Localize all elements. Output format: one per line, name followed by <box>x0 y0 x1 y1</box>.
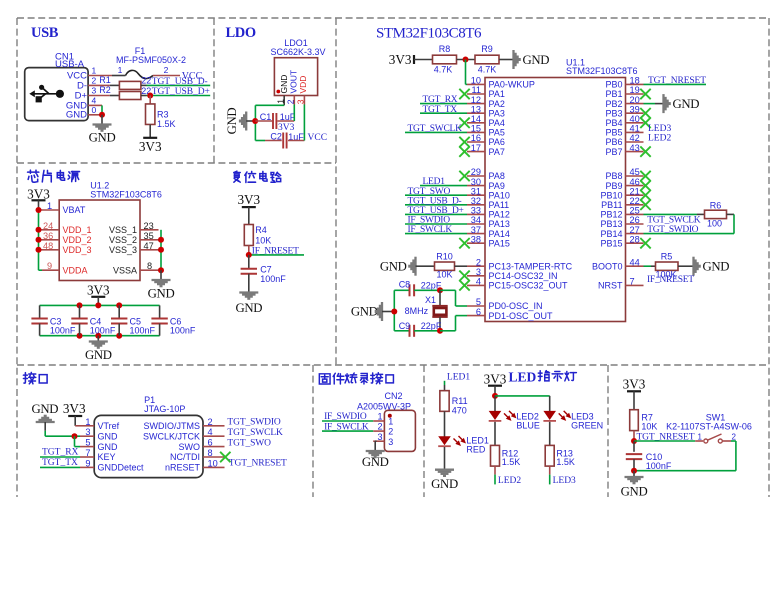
svg-text:PB7: PB7 <box>605 147 622 157</box>
svg-text:LED: LED <box>509 369 537 384</box>
svg-text:PA11: PA11 <box>489 200 510 210</box>
junction crystal gnd <box>391 309 397 315</box>
pin 45 PB8 <box>605 167 643 181</box>
wire R7 to TGT_NRESET node <box>633 431 635 441</box>
svg-text:22: 22 <box>141 76 151 86</box>
resistor R5 100K <box>655 251 678 279</box>
svg-text:PA12: PA12 <box>489 210 510 220</box>
no-connect pin 21 <box>640 190 650 200</box>
connector CN1 USB-A <box>25 52 97 121</box>
svg-text:TGT_SWDIO: TGT_SWDIO <box>647 225 698 235</box>
resistor R12 1.5K <box>491 445 521 467</box>
svg-text:R1: R1 <box>99 75 111 85</box>
svg-text:IF_NRESET: IF_NRESET <box>647 275 694 285</box>
svg-text:1.5K: 1.5K <box>556 457 575 467</box>
connector P1 JTAG-10P <box>94 395 203 478</box>
svg-text:100: 100 <box>707 219 722 229</box>
capacitor C7 100nF <box>241 265 287 284</box>
svg-text:NRST: NRST <box>598 281 623 291</box>
svg-text:16: 16 <box>471 133 481 143</box>
svg-text:PA0-WKUP: PA0-WKUP <box>489 80 535 90</box>
svg-text:36: 36 <box>43 231 53 241</box>
pin 8 VSSA stub <box>140 269 159 271</box>
svg-text:TGT_USB_D+: TGT_USB_D+ <box>408 206 464 216</box>
svg-text:10: 10 <box>208 458 218 468</box>
svg-text:PA8: PA8 <box>489 171 505 181</box>
svg-text:C9: C9 <box>399 321 411 331</box>
wire gnd to pin5 <box>74 436 76 446</box>
svg-text:1: 1 <box>118 65 123 75</box>
svg-text:5: 5 <box>85 438 90 448</box>
svg-text:C8: C8 <box>399 280 411 290</box>
svg-text:VCC: VCC <box>308 133 328 143</box>
pin 2 PC13-TAMPER-RTC <box>467 257 573 271</box>
pin 29 PA8 <box>467 167 505 181</box>
svg-text:3: 3 <box>476 267 481 277</box>
svg-text:PA10: PA10 <box>489 190 510 200</box>
wire net TGT_NRESET to switch <box>634 440 695 442</box>
pin 10 PA0-WKUP <box>467 76 535 90</box>
svg-text:nRESET: nRESET <box>165 463 201 473</box>
svg-text:R10: R10 <box>436 251 453 261</box>
resistor R4 10K <box>244 225 271 246</box>
pin 3 (P1 left) <box>80 427 94 437</box>
pin 3 PC14-OSC32_IN <box>467 267 558 281</box>
svg-text:X1: X1 <box>425 295 436 305</box>
power 3V3 (P1) <box>63 401 86 416</box>
ground (CN2) <box>362 451 389 469</box>
pin 19 PB1 <box>605 85 643 99</box>
svg-text:GND: GND <box>85 348 112 362</box>
junction VSSA <box>158 267 164 273</box>
svg-text:37: 37 <box>471 225 481 235</box>
svg-text:STM32F103C8T6: STM32F103C8T6 <box>376 26 482 42</box>
svg-text:43: 43 <box>630 143 640 153</box>
led LED2 BLUE <box>489 411 540 431</box>
svg-text:0: 0 <box>92 105 97 115</box>
junction D+ / R3 <box>147 93 153 99</box>
svg-text:3V3: 3V3 <box>389 52 412 67</box>
pin 6 (P1 right) <box>203 438 225 448</box>
capacitor C5 100nF <box>111 305 156 335</box>
svg-text:19: 19 <box>630 85 640 95</box>
svg-text:30: 30 <box>471 177 481 187</box>
wire net IF_SWDIO <box>405 223 467 225</box>
svg-text:TGT_RX: TGT_RX <box>423 95 458 105</box>
svg-text:2: 2 <box>732 432 737 441</box>
pin 6 PD1-OSC_OUT <box>467 307 553 321</box>
svg-text:PB8: PB8 <box>605 171 622 181</box>
svg-text:15: 15 <box>471 124 481 134</box>
svg-text:PA6: PA6 <box>489 137 505 147</box>
pin 9 (P1 left) <box>80 458 94 468</box>
section title chip power <box>28 170 39 182</box>
svg-text:13: 13 <box>471 104 481 114</box>
svg-text:47: 47 <box>144 241 154 251</box>
svg-text:LED1: LED1 <box>447 373 470 383</box>
pin 5 PD0-OSC_IN <box>467 297 543 311</box>
capacitor C1 1uF <box>255 112 295 129</box>
svg-text:PD1-OSC_OUT: PD1-OSC_OUT <box>489 311 554 321</box>
svg-text:3V3: 3V3 <box>63 401 86 416</box>
svg-text:PB2: PB2 <box>605 99 622 109</box>
no-connect pin 28 <box>640 238 650 248</box>
pin 37 PA14 <box>467 225 510 239</box>
svg-text:8MHz: 8MHz <box>405 306 429 316</box>
no-connect pin 14 <box>459 118 469 128</box>
svg-text:GND: GND <box>380 260 407 274</box>
power 3V3 (SW1) <box>623 377 646 392</box>
no-connect pin 40 <box>640 118 650 128</box>
section title firmware programming interface <box>319 374 330 384</box>
svg-text:10: 10 <box>471 76 481 86</box>
no-connect pin 3 <box>459 271 469 281</box>
wire net TGT_SWO <box>405 194 467 196</box>
wire CN2 pin3 to ground <box>375 440 376 442</box>
svg-text:100nF: 100nF <box>130 326 156 336</box>
svg-text:3: 3 <box>85 427 90 437</box>
pin 32 PA11 <box>467 196 509 210</box>
capacitor C6 100nF <box>151 305 196 335</box>
pin 5 (P1 left) <box>80 438 94 448</box>
capacitor C4 100nF <box>71 305 116 335</box>
junction rail C4 bottom <box>77 333 83 339</box>
junction VDD_2 <box>36 237 42 243</box>
no-connect pin 4 <box>459 280 469 290</box>
wire 3V3 to LED rail <box>494 386 496 396</box>
pin 16 PA6 <box>467 133 505 147</box>
svg-text:VOUT: VOUT <box>289 70 299 94</box>
svg-text:21: 21 <box>630 186 640 196</box>
svg-text:R3: R3 <box>157 110 169 120</box>
pin 21 PB10 <box>600 186 643 200</box>
svg-text:100nF: 100nF <box>170 326 196 336</box>
svg-text:9: 9 <box>85 458 90 468</box>
no-connect pin 17 <box>459 146 469 156</box>
svg-text:KEY: KEY <box>98 452 116 462</box>
svg-text:PA4: PA4 <box>489 118 505 128</box>
svg-text:LED3: LED3 <box>648 124 671 134</box>
wire net IF_SWDIO (CN2) <box>322 420 373 422</box>
svg-text:100nF: 100nF <box>90 326 116 336</box>
wire net TGT_USB_D+ <box>405 213 467 215</box>
svg-text:PB11: PB11 <box>601 200 622 210</box>
wire net TGT_TX (P1) <box>40 466 80 468</box>
svg-text:PD0-OSC_IN: PD0-OSC_IN <box>489 301 543 311</box>
pin 13 PA3 <box>467 104 505 118</box>
svg-text:GND: GND <box>523 53 550 67</box>
junction GND pins <box>99 112 105 118</box>
svg-text:GND: GND <box>235 301 262 315</box>
svg-text:TGT_RX: TGT_RX <box>42 447 79 457</box>
svg-text:32: 32 <box>471 196 481 206</box>
wire net TGT_RX <box>420 103 467 105</box>
svg-text:PA13: PA13 <box>489 219 510 229</box>
no-connect pin 8 (P1) <box>220 452 230 462</box>
wire net TGT_TX <box>420 112 467 114</box>
svg-text:4: 4 <box>208 427 213 437</box>
svg-text:VBAT: VBAT <box>63 205 86 215</box>
ground (BOOT0) <box>694 257 730 276</box>
svg-text:PB14: PB14 <box>600 229 622 239</box>
svg-text:R4: R4 <box>255 225 267 235</box>
svg-text:TGT_NRESET: TGT_NRESET <box>229 459 287 469</box>
wire LED3 to R13 <box>549 422 551 446</box>
svg-text:PB4: PB4 <box>605 118 622 128</box>
pin 1 (P1 left) <box>80 417 94 427</box>
capacitor C10 100nF <box>626 452 672 471</box>
junction C10 bottom <box>631 468 637 474</box>
pin 41 PB5 <box>605 124 643 138</box>
wire R6 to PB14 loop <box>727 213 735 215</box>
svg-text:STM32F103C8T6: STM32F103C8T6 <box>566 66 638 76</box>
svg-text:GND: GND <box>279 75 289 94</box>
svg-text:LED2: LED2 <box>648 134 671 144</box>
wire 3V3 to top rail <box>97 297 99 306</box>
resistor R9 4.7K <box>475 44 499 75</box>
svg-text:LED1: LED1 <box>423 177 446 187</box>
resistor R1 22 <box>99 75 141 89</box>
wire CN1 GND pin4 to pin0 <box>88 104 102 106</box>
pin 31 PA10 <box>467 186 510 200</box>
svg-text:GND: GND <box>362 455 389 469</box>
wire BOOT0 to R5 <box>644 265 652 267</box>
svg-text:CN2: CN2 <box>384 391 402 401</box>
led LED1 RED <box>438 436 489 455</box>
svg-text:GREEN: GREEN <box>571 420 603 430</box>
junction xtal top <box>437 287 443 293</box>
ground (PC13) <box>380 257 416 276</box>
svg-text:44: 44 <box>630 257 640 267</box>
svg-text:BOOT0: BOOT0 <box>592 261 623 271</box>
capacitor C2 1uF <box>255 132 304 149</box>
svg-text:7: 7 <box>630 277 635 287</box>
pin 28 PB15 <box>600 234 643 248</box>
wire to C7 <box>248 255 250 269</box>
svg-text:TGT_SWCLK: TGT_SWCLK <box>647 216 700 226</box>
svg-text:42: 42 <box>630 133 640 143</box>
svg-text:22: 22 <box>630 196 640 206</box>
wire R1 to net TGT_USB_D- <box>141 84 147 86</box>
svg-text:1: 1 <box>47 201 52 211</box>
wire VSS rail (green vertical) <box>160 230 162 270</box>
svg-text:VSS_3: VSS_3 <box>109 245 137 255</box>
svg-text:IF_SWCLK: IF_SWCLK <box>408 225 453 235</box>
svg-text:3V3: 3V3 <box>484 372 507 387</box>
wire decoupling top rail <box>40 304 160 306</box>
svg-text:NC/TDI: NC/TDI <box>170 452 200 462</box>
resistor R3 1.5K <box>146 104 176 129</box>
svg-text:PB13: PB13 <box>600 219 622 229</box>
svg-text:4.7K: 4.7K <box>434 64 453 74</box>
svg-text:7: 7 <box>85 448 90 458</box>
svg-text:R8: R8 <box>439 44 451 54</box>
svg-text:MF-PSMF050X-2: MF-PSMF050X-2 <box>116 55 186 65</box>
svg-text:C1: C1 <box>260 112 272 122</box>
svg-text:100nF: 100nF <box>260 274 286 284</box>
svg-text:PC13-TAMPER-RTC: PC13-TAMPER-RTC <box>489 261 573 271</box>
junction rail C5 top <box>116 302 122 308</box>
no-connect pin 45 <box>640 171 650 181</box>
wire net TGT_USB_D- <box>405 204 467 206</box>
no-connect pin 38 <box>459 238 469 248</box>
junction rail GND <box>95 333 101 339</box>
pin 36 VDD_2 stub <box>41 239 60 241</box>
svg-text:TGT_SWO: TGT_SWO <box>227 438 271 448</box>
pin 33 PA12 <box>467 206 510 220</box>
svg-text:VDD_1: VDD_1 <box>63 225 92 235</box>
pin 44 BOOT0 <box>592 257 644 271</box>
svg-text:PC15-OSC32_OUT: PC15-OSC32_OUT <box>489 281 569 291</box>
svg-text:18: 18 <box>630 76 640 86</box>
svg-text:25: 25 <box>630 206 640 216</box>
svg-text:GND: GND <box>66 110 87 121</box>
svg-text:8: 8 <box>147 261 152 271</box>
svg-text:23: 23 <box>144 221 154 231</box>
svg-text:29: 29 <box>471 167 481 177</box>
svg-text:SWDIO/JTMS: SWDIO/JTMS <box>144 421 201 431</box>
junction LED rail <box>492 393 498 399</box>
wire D+ junction to R3 <box>149 96 151 105</box>
wire C7 to ground <box>248 274 250 293</box>
svg-text:2: 2 <box>208 417 213 427</box>
pin 42 PB6 <box>605 133 643 147</box>
wire PB12 to R6 <box>644 213 698 215</box>
section border frame (decorative dashed) <box>17 18 769 497</box>
resistor R11 470 <box>440 391 468 416</box>
pin 39 PB3 <box>605 104 643 118</box>
svg-text:VDD_2: VDD_2 <box>63 235 92 245</box>
wire ground to R10 <box>416 265 435 267</box>
wire rail to LED3 down <box>549 396 551 412</box>
no-connect pin 46 <box>640 180 650 190</box>
svg-text:R9: R9 <box>481 44 493 54</box>
wire switch to C10 bottom <box>731 440 736 442</box>
junction VDD_3 <box>36 247 42 253</box>
wire bottom node to PD1 <box>440 330 456 332</box>
junction P1 gnd <box>72 433 78 439</box>
svg-text:TGT_USB_D-: TGT_USB_D- <box>408 196 462 206</box>
svg-text:PA2: PA2 <box>489 99 505 109</box>
wire C10 to bottom node <box>633 459 635 471</box>
svg-text:PA3: PA3 <box>489 108 505 118</box>
wire to ground (USB) <box>101 115 103 125</box>
resistor R7 10K <box>630 410 658 432</box>
power 3V3 (USB) <box>139 138 162 154</box>
wire CN1 VCC to F1 <box>88 75 112 77</box>
svg-text:GND: GND <box>621 485 648 499</box>
svg-text:3V3: 3V3 <box>139 139 162 154</box>
svg-text:2: 2 <box>377 422 382 432</box>
wire R13 to net LED3 <box>549 466 551 475</box>
pin 34 PA13 <box>467 215 510 229</box>
svg-text:14: 14 <box>471 114 481 124</box>
connector CN2 A2005WV-3P <box>357 391 415 452</box>
svg-text:5: 5 <box>476 297 481 307</box>
svg-text:100nF: 100nF <box>646 461 672 471</box>
ground (PB2) <box>664 94 700 113</box>
wire crystal left rail <box>393 290 395 331</box>
wire R11 to LED1 <box>444 411 446 437</box>
svg-text:GND: GND <box>89 131 116 145</box>
svg-text:100nF: 100nF <box>50 326 76 336</box>
wire C2 to LDO pin3 VDD <box>288 140 304 142</box>
ground (reset) <box>235 293 262 316</box>
svg-text:1: 1 <box>92 66 97 76</box>
svg-text:GND: GND <box>148 287 175 301</box>
svg-text:GND: GND <box>98 442 119 452</box>
pin 24 VDD_1 stub <box>41 229 60 231</box>
svg-text:PB10: PB10 <box>600 190 622 200</box>
pin 1 VBAT stub <box>41 209 60 211</box>
svg-text:2: 2 <box>164 65 169 75</box>
svg-text:35: 35 <box>144 231 154 241</box>
svg-text:USB-A: USB-A <box>55 59 85 70</box>
mcu U1.1 STM32F103C8T6 <box>485 57 638 321</box>
svg-text:PB1: PB1 <box>605 89 622 99</box>
svg-text:PB9: PB9 <box>605 181 622 191</box>
resistor R13 1.5K <box>545 445 575 467</box>
svg-text:PA7: PA7 <box>489 147 505 157</box>
svg-text:R2: R2 <box>99 85 111 95</box>
svg-text:STM32F103C8T6: STM32F103C8T6 <box>90 190 162 200</box>
svg-text:LDO: LDO <box>226 25 256 41</box>
svg-text:VSS_1: VSS_1 <box>109 225 137 235</box>
no-connect pin 11 <box>459 89 469 99</box>
junction IF_NRESET <box>246 252 252 258</box>
svg-text:8: 8 <box>208 448 213 458</box>
wire PB2 to ground <box>644 103 656 105</box>
svg-text:GND: GND <box>703 260 730 274</box>
svg-text:38: 38 <box>471 234 481 244</box>
pin 7 (P1 left) <box>80 448 94 458</box>
svg-text:1: 1 <box>698 432 703 441</box>
pin 23 VSS_1 stub <box>140 229 159 231</box>
pin 9 VDDA stub <box>42 269 59 271</box>
svg-text:PB6: PB6 <box>605 137 622 147</box>
ground (crystal) <box>351 302 394 321</box>
svg-text:SC662K-3.3V: SC662K-3.3V <box>270 47 325 57</box>
svg-text:40: 40 <box>630 114 640 124</box>
wire R5 to ground <box>678 265 694 267</box>
svg-text:12: 12 <box>471 95 481 105</box>
ground (P1) <box>31 402 58 422</box>
svg-text:PB3: PB3 <box>605 108 622 118</box>
svg-text:470: 470 <box>452 405 467 415</box>
wire net IF_NRESET <box>249 254 304 256</box>
pin 35 VSS_2 stub <box>140 239 159 241</box>
svg-text:41: 41 <box>630 124 640 134</box>
pin 20 PB2 <box>605 95 643 109</box>
wire CN1 D+ to R2 <box>88 95 110 97</box>
svg-text:9: 9 <box>47 261 52 271</box>
resistor R2 22 <box>99 85 141 99</box>
capacitor C8 22pF <box>394 280 442 297</box>
svg-text:TGT_TX: TGT_TX <box>42 458 78 468</box>
svg-text:3V3: 3V3 <box>87 283 110 298</box>
svg-text:26: 26 <box>630 215 640 225</box>
pin 26 PB13 <box>600 215 643 229</box>
pin 17 PA7 <box>467 143 505 157</box>
pin 11 PA1 <box>467 85 505 99</box>
no-connect pin 29 <box>459 171 469 181</box>
svg-text:JTAG-10P: JTAG-10P <box>144 404 185 414</box>
pin 15 PA5 <box>467 124 505 138</box>
wire C9 to XTAL bottom node <box>414 330 440 332</box>
svg-text:10K: 10K <box>255 236 271 246</box>
crystal X1 8MHz <box>405 290 448 331</box>
svg-text:GND: GND <box>431 477 458 491</box>
